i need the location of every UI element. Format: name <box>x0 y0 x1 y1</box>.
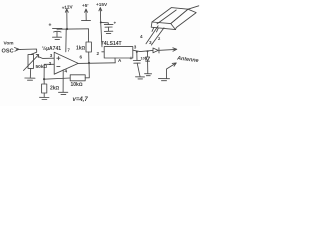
wire feedback to pin2 node <box>44 78 70 79</box>
node output junction <box>88 62 90 64</box>
resistor R2 1k <box>86 42 91 52</box>
wire +12V rail <box>57 28 89 30</box>
capacitor C3 10u <box>133 52 140 77</box>
ground (under C1) <box>53 37 62 39</box>
wire rail drop to R2 <box>88 29 90 42</box>
svg-text:Vom: Vom <box>4 41 14 47</box>
wire +15V down to U2 <box>101 22 102 47</box>
potentiometer R1 50k <box>24 55 39 71</box>
ground (under R3) <box>40 97 50 99</box>
node junction on +12V rail <box>66 28 68 30</box>
wire pot to ground <box>29 68 31 77</box>
diode D1 (to ground) <box>146 51 150 73</box>
wire R2 to output node <box>88 52 90 63</box>
svg-text:4: 4 <box>65 69 68 74</box>
ground (under C3) <box>136 77 145 79</box>
svg-text:4: 4 <box>140 34 143 39</box>
capacitor C2 (decoupling on +15V) <box>101 22 113 31</box>
svg-text:10µ: 10µ <box>141 57 147 61</box>
svg-text:+: + <box>49 23 52 29</box>
ground (op-amp pin4) <box>59 92 68 94</box>
svg-text:3: 3 <box>50 53 53 58</box>
power +5V flag <box>82 9 91 21</box>
module (3D sketch of oscillator block) <box>151 6 199 32</box>
svg-text:1kΩ: 1kΩ <box>76 46 86 52</box>
wire U2 pin3 output <box>133 50 153 51</box>
wire feedback drop <box>85 63 89 78</box>
svg-text:+: + <box>114 21 117 26</box>
svg-text:10kΩ: 10kΩ <box>71 82 83 88</box>
svg-text:v=4,7: v=4,7 <box>73 97 89 103</box>
power +12V flag <box>65 9 68 29</box>
svg-text:2kΩ: 2kΩ <box>50 86 60 92</box>
IC U2 74LS14 box <box>104 47 133 58</box>
resistor R3 2k <box>42 79 47 97</box>
wire output pin6 <box>78 62 115 65</box>
svg-text:2: 2 <box>49 61 52 66</box>
diode D2 (series) <box>153 48 159 53</box>
wire to antenna with arrow <box>159 48 176 51</box>
wire op-amp pin4 down <box>62 70 64 92</box>
svg-text:50kΩ: 50kΩ <box>36 64 48 70</box>
wire module lead B <box>151 28 164 45</box>
resistor R4 10k (feedback) <box>70 75 85 81</box>
svg-text:3: 3 <box>149 40 152 45</box>
wire pin2 input <box>44 64 54 79</box>
svg-text:+15V: +15V <box>96 2 108 7</box>
svg-text:½µA741: ½µA741 <box>42 45 61 52</box>
svg-text:OSC: OSC <box>2 49 14 55</box>
svg-text:+5': +5' <box>82 3 88 8</box>
svg-text:+: + <box>130 56 133 62</box>
ground (under D1) <box>145 74 152 76</box>
node junction C3 <box>136 51 138 53</box>
wire input to pot <box>21 49 37 54</box>
node junction D1 <box>147 50 149 52</box>
svg-text:2: 2 <box>97 51 100 56</box>
wire antenna return <box>167 63 177 79</box>
op-amp U1 <box>54 52 78 74</box>
node pin2/feedback junction <box>43 78 45 80</box>
wire output up to U2 pin1 <box>114 58 116 63</box>
ground (under pot) <box>25 78 35 80</box>
svg-text:74LS14T: 74LS14T <box>101 41 122 47</box>
connector (input jack) <box>15 48 21 52</box>
svg-text:6: 6 <box>80 55 83 60</box>
ground (antenna return) <box>159 79 170 81</box>
capacitor C1 (decoupling on +12V) <box>53 28 63 36</box>
wire module lead A <box>146 26 158 44</box>
wire U2 pin2 stub <box>102 51 104 53</box>
node junction +15V cap tap <box>100 21 102 23</box>
ground (under C2) <box>104 31 113 33</box>
power +15V flag <box>99 8 102 23</box>
wire pin3 input <box>39 57 54 59</box>
wire op-amp pin7 to rail <box>65 29 67 52</box>
svg-text:3: 3 <box>134 44 137 49</box>
